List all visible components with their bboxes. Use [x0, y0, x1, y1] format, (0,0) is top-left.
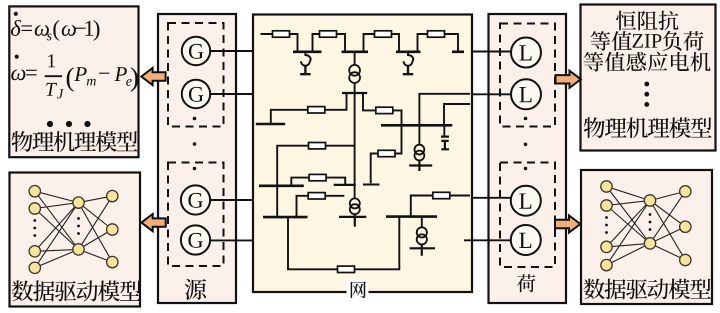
- load dashed group 1: [500, 24, 555, 127]
- left NN nodes: [29, 186, 118, 274]
- busbar B: [381, 124, 452, 127]
- wire top feeder seg4: [418, 34, 459, 52]
- wire row-B: [363, 93, 402, 125]
- wire G3 to net: [210, 199, 253, 201]
- generator G3: [181, 185, 210, 214]
- resistor row-A: [308, 107, 325, 113]
- right NN ellipsis dots: [605, 213, 651, 234]
- load L1: [511, 38, 541, 68]
- wire G4 to net: [210, 239, 253, 241]
- wire bottom loop: [288, 217, 399, 270]
- wire top feeder seg2: [313, 34, 346, 52]
- wire L2 feeder drop: [419, 94, 470, 145]
- source box 源: [158, 14, 236, 303]
- wire row-A: [271, 93, 347, 124]
- resistor row-4: [308, 193, 325, 199]
- load box 荷: [489, 14, 567, 303]
- vertical ellipsis (right box): [644, 82, 649, 107]
- wire top feeder seg1: [261, 34, 298, 52]
- ground under T3: [410, 245, 435, 256]
- label 数据驱动模型 (right): [584, 279, 711, 300]
- transformer T1: [349, 65, 360, 76]
- right NN nodes: [601, 181, 691, 271]
- fraction bar: [45, 75, 62, 77]
- source ellipsis: [193, 117, 197, 171]
- wire G1 to net: [210, 50, 253, 52]
- resistor row-2b: [378, 150, 395, 156]
- resistor R1: [273, 31, 290, 37]
- wire row-4: [297, 196, 345, 217]
- load L2: [511, 79, 541, 109]
- label 网 background: [347, 280, 369, 300]
- resistor row-3: [309, 174, 326, 180]
- equation omega-dot: [15, 55, 19, 59]
- transformer T2: [350, 198, 360, 208]
- wire net to L4: [464, 239, 511, 241]
- busbar E: [386, 215, 437, 218]
- load L4: [511, 225, 541, 255]
- label 物理机理模型 (left): [12, 131, 138, 152]
- arrow to data-driven model (right): [555, 215, 580, 232]
- busbar C: [259, 185, 304, 188]
- label 数据驱动模型 (left): [12, 280, 141, 301]
- wire busbarE to T3: [421, 217, 423, 228]
- left physical-model equation box: [9, 6, 138, 157]
- wire net to L1: [471, 51, 511, 53]
- wire G2 to net: [210, 93, 253, 95]
- line 等值感应电机: [584, 52, 711, 72]
- line 等值ZIP负荷: [591, 31, 632, 51]
- wire net to L2: [471, 93, 511, 95]
- ground under T2r: [409, 160, 432, 171]
- load ellipsis: [524, 117, 528, 171]
- wire T1 to bar: [354, 83, 356, 93]
- capacitor: [441, 137, 449, 150]
- busbar A: [256, 123, 285, 126]
- generator G2: [182, 80, 210, 108]
- label 源: [185, 279, 206, 300]
- arrester under busbar 3: [408, 53, 413, 62]
- resistor R4: [428, 31, 445, 37]
- wire top feeder seg3: [364, 34, 400, 52]
- arrow to data-driven model (left): [141, 214, 165, 231]
- wire row-2b: [363, 125, 402, 184]
- busbar 2: [342, 50, 369, 53]
- arrester under busbar 1: [305, 53, 310, 62]
- load L3: [511, 186, 541, 216]
- label 网: [351, 282, 366, 299]
- equation delta-dot: [14, 12, 18, 16]
- arrow to physical model (left): [141, 68, 165, 85]
- arrow to physical model (right): [556, 71, 581, 88]
- busbar D: [263, 216, 308, 219]
- wire row-5: [411, 196, 470, 217]
- ground under T2: [339, 214, 366, 226]
- resistor row-B: [376, 107, 393, 113]
- bar under T1: [342, 92, 367, 94]
- right physical-model text box: [581, 5, 716, 151]
- line 恒阻抗: [616, 11, 678, 31]
- wire net to L3: [471, 197, 511, 199]
- label 物理机理模型 (right): [584, 117, 712, 138]
- resistor bottom loop: [338, 266, 355, 272]
- wire central vertical: [354, 93, 356, 199]
- generator dashed group 1: [168, 23, 224, 127]
- resistor row-2: [309, 143, 326, 149]
- generator dashed group 2: [168, 163, 224, 267]
- equation 1: [11, 20, 99, 41]
- network box 网: [253, 15, 472, 293]
- busbar 1: [293, 50, 322, 53]
- bar row-3 end: [334, 184, 356, 186]
- wire busbar2 to T1: [354, 52, 356, 65]
- transformer T3: [417, 227, 427, 237]
- wire row-2: [277, 146, 354, 217]
- resistor R2: [320, 31, 337, 37]
- right NN edges: [607, 187, 686, 266]
- generator G1: [182, 37, 210, 65]
- busbar 3: [396, 50, 421, 53]
- transformer T2r: [415, 145, 425, 155]
- resistor R3: [375, 31, 392, 37]
- load dashed group 2: [500, 163, 555, 268]
- wire busbar to capacitor: [443, 125, 445, 136]
- left data-driven model box: [10, 173, 141, 307]
- wire capacitor feeder: [444, 104, 470, 125]
- equation ellipsis: [47, 121, 91, 127]
- busbar 4 stub: [452, 50, 464, 53]
- left NN edges: [35, 191, 113, 268]
- label 荷: [517, 274, 535, 292]
- resistor row-5: [433, 192, 450, 198]
- generator G4: [181, 225, 210, 254]
- left NN ellipsis dots: [33, 217, 80, 237]
- right data-driven model box: [581, 170, 712, 304]
- wire row-3: [291, 178, 345, 186]
